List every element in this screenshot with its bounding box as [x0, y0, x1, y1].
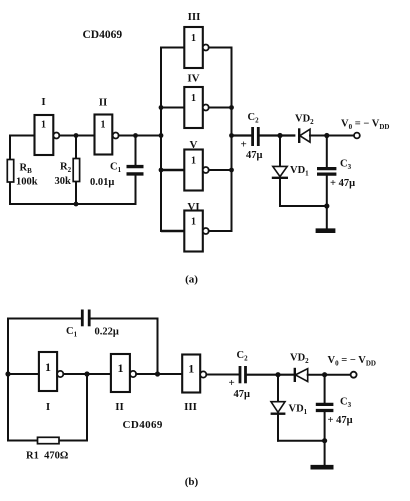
inverter U-III — [184, 11, 209, 68]
node right bus / V output — [229, 168, 234, 173]
inverter U-II — [95, 97, 119, 155]
node junction signal / left bus — [159, 133, 164, 138]
wire inverter V output to bus — [209, 169, 232, 171]
wire bottom rail with R1 (b) — [8, 440, 87, 442]
svg-text:30k: 30k — [55, 176, 72, 187]
wire input to inverter I — [10, 135, 35, 137]
resistor RB 100k — [7, 160, 37, 188]
resistor R1 470ohm — [26, 437, 68, 461]
node junction input of inverter I — [5, 371, 10, 376]
diode VD1 (b) — [271, 375, 308, 441]
node junction C3 branch — [324, 133, 329, 138]
wire inverter III output to bus — [209, 47, 232, 49]
svg-text:III: III — [188, 11, 201, 23]
ground (b) — [311, 465, 334, 470]
svg-text:III: III — [184, 401, 197, 413]
svg-text:1: 1 — [118, 361, 124, 375]
wire to inverter I input — [8, 373, 39, 375]
svg-text:+ 47μ: + 47μ — [328, 415, 353, 426]
resistor R2 30k — [55, 136, 80, 205]
wire bus to inverter V input — [161, 169, 184, 172]
node junction bottom rail / R2 — [74, 202, 79, 207]
inverter U-I (b) — [39, 352, 64, 413]
svg-text:CD4069: CD4069 — [123, 419, 163, 431]
svg-text:1: 1 — [45, 360, 51, 374]
inverter U-IV — [184, 72, 209, 128]
wire C2 to diode VD2 — [260, 134, 294, 136]
svg-text:+: + — [241, 139, 247, 151]
wire inverter II output to left bus — [119, 135, 161, 137]
svg-text:R1 470Ω: R1 470Ω — [26, 450, 68, 461]
wire inverter II output to inverter III — [136, 373, 182, 375]
svg-text:I: I — [41, 96, 45, 108]
wire to ground — [326, 206, 328, 229]
svg-text:1: 1 — [191, 33, 196, 44]
svg-text:I: I — [46, 401, 50, 413]
svg-text:II: II — [115, 401, 124, 413]
node right bus / C2 wire — [229, 133, 234, 138]
wire feedback left vertical — [7, 319, 9, 441]
wire bus to inverter III input — [161, 47, 184, 49]
svg-text:1: 1 — [191, 156, 196, 167]
wire inverter VI output to bus — [209, 230, 232, 232]
svg-text:0.22μ: 0.22μ — [95, 327, 119, 338]
wire inverter I output to inverter II — [63, 373, 111, 375]
svg-text:IV: IV — [187, 72, 199, 84]
inverter U-V — [184, 139, 209, 191]
output terminal — [354, 133, 360, 139]
svg-text:1: 1 — [101, 120, 106, 131]
svg-text:(b): (b) — [185, 476, 199, 488]
capacitor C2 47u polarized — [241, 112, 263, 161]
svg-text:0.01μ: 0.01μ — [90, 177, 114, 188]
wire feedback right vertical — [157, 319, 159, 375]
wire inverter IV output to bus — [209, 107, 232, 109]
svg-text:+: + — [229, 377, 235, 389]
svg-text:V: V — [190, 139, 198, 151]
ground — [316, 228, 336, 233]
wire inverter I output to inverter II — [59, 135, 94, 137]
svg-text:1: 1 — [191, 217, 196, 228]
node junction ground branch — [324, 203, 329, 208]
node junction C3 branch (b) — [322, 372, 327, 377]
inverter U-I — [35, 96, 60, 155]
svg-text:II: II — [99, 97, 108, 109]
capacitor C3 47u (b) — [316, 375, 353, 441]
node junction ground branch (b) — [322, 438, 327, 443]
svg-text:1: 1 — [188, 362, 194, 376]
inverter U-VI — [184, 201, 209, 252]
wire left input bus — [160, 48, 162, 232]
wire bus to capacitor C2 — [232, 134, 252, 136]
wire to ground (b) — [324, 441, 326, 465]
node left bus / V input — [159, 168, 164, 173]
inverter U-II (b) — [111, 354, 136, 413]
svg-text:(a): (a) — [185, 274, 198, 286]
svg-text:CD4069: CD4069 — [83, 29, 123, 41]
capacitor C2 47u (b) — [229, 350, 251, 400]
diode VD2 — [295, 114, 314, 144]
diode VD1 — [272, 136, 309, 207]
wire feedback top rail — [8, 318, 158, 320]
node junction at R2 top — [74, 133, 79, 138]
wire inverter III output to C2 — [206, 374, 238, 376]
capacitor C1 0.01u — [90, 136, 144, 205]
node junction at C1 top — [133, 133, 138, 138]
node junction VD1 branch — [277, 133, 282, 138]
wire C2 to diode VD2 (b) — [247, 374, 294, 376]
node right bus / IV output — [229, 105, 234, 110]
svg-text:1: 1 — [191, 93, 196, 104]
svg-text:+ 47μ: + 47μ — [330, 178, 355, 189]
node junction feedback / signal — [155, 371, 160, 376]
wire VD1 bottom to C3 bottom — [280, 205, 327, 207]
wire VD1 bottom to C3 bottom (b) — [278, 440, 325, 442]
capacitor C1 0.22u — [66, 310, 119, 339]
wire right output bus — [231, 48, 233, 232]
wire bus to inverter VI input — [161, 230, 184, 232]
output terminal (b) — [351, 372, 357, 378]
node junction VD1 branch (b) — [275, 372, 280, 377]
node junction R1 branch — [84, 371, 89, 376]
wire VD2 to output — [310, 135, 354, 137]
wire bottom rail — [10, 203, 136, 205]
capacitor C3 47u polarized — [317, 136, 355, 207]
svg-text:VI: VI — [187, 201, 199, 213]
node left bus / IV input — [159, 105, 164, 110]
inverter U-III (b) — [182, 355, 206, 414]
wire R1 right vertical — [86, 374, 88, 441]
wire VD2 to output (b) — [308, 374, 351, 376]
svg-text:47μ: 47μ — [246, 150, 263, 161]
wire left feedback vertical — [9, 136, 11, 205]
svg-text:100k: 100k — [16, 177, 38, 188]
svg-text:1: 1 — [41, 120, 46, 131]
svg-text:47μ: 47μ — [234, 389, 251, 400]
diode VD2 (b) — [290, 353, 309, 383]
wire bus to inverter IV input — [161, 107, 184, 109]
